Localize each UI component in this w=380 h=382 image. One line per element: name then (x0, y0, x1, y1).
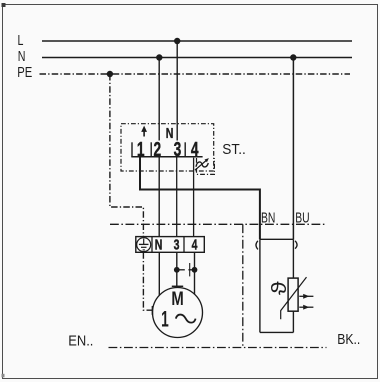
motor top terminal bar (172, 285, 183, 287)
controller ST.. box (121, 124, 214, 171)
connector contact left (256, 241, 258, 250)
variable AC symbol (196, 162, 208, 167)
thermal influence arrow 1 (299, 295, 313, 297)
motor M1 circle (153, 288, 203, 338)
wire PE to earth terminal (dash-dot) (110, 74, 143, 237)
svg-text:3: 3 (174, 236, 180, 253)
housing boundary top (dash-dot) (110, 223, 327, 225)
svg-text:L: L (18, 31, 24, 48)
svg-text:N: N (166, 124, 174, 141)
svg-text:1: 1 (137, 137, 145, 160)
wire block N to motor (158, 252, 160, 295)
svg-text:N: N (155, 236, 163, 253)
wire N to ST terminal 2 (158, 58, 160, 141)
earth terminal symbol (137, 238, 151, 252)
wire ST terminal 2 down (158, 157, 160, 237)
svg-text:1: 1 (161, 307, 169, 331)
wire BU segments (292, 239, 294, 278)
wire phase-control to motor terminal 4 (193, 158, 195, 237)
svg-text:PE: PE (17, 63, 32, 80)
sensor compartment divider (dash-dot) (242, 224, 244, 347)
thermistor body (288, 278, 298, 311)
wire block 3 to motor (176, 252, 178, 286)
svg-text:BK..: BK.. (337, 331, 360, 347)
svg-text:BU: BU (295, 210, 309, 226)
thermistor variability stroke (281, 277, 307, 319)
svg-text:N: N (18, 47, 26, 64)
housing boundary bottom (dash-dot) (109, 347, 327, 349)
connector contact right (295, 241, 297, 249)
sensor bottom wire (260, 331, 294, 333)
terminal strip of ST (131, 156, 202, 158)
node on N (left) (156, 54, 162, 60)
motor terminal block (136, 237, 205, 253)
wire ST terminal 1 to BN (thick) (140, 157, 260, 240)
svg-text:EN..: EN.. (68, 333, 93, 349)
line N (42, 57, 352, 59)
svg-text:3: 3 (174, 137, 182, 160)
line L (42, 40, 352, 42)
svg-text:ST..: ST.. (222, 141, 246, 157)
node on L (174, 38, 180, 44)
svg-text:4: 4 (191, 137, 199, 160)
svg-text:ϑ: ϑ (267, 281, 290, 295)
node on PE (107, 71, 113, 77)
phase-control output box (197, 158, 215, 174)
svg-text:M: M (171, 287, 183, 310)
wire L to ST terminal 3 (176, 41, 178, 141)
earth wire to motor frame (dash-dot) (143, 252, 152, 310)
thermal influence arrow 2 (299, 306, 313, 308)
wire ST terminal 3 down (176, 157, 178, 237)
motor tilde (176, 315, 196, 323)
svg-text:2: 2 (153, 137, 161, 160)
wire BN down (259, 239, 261, 332)
wire N to BU (292, 58, 294, 240)
svg-text:BN: BN (261, 210, 275, 226)
node on N (right) (290, 54, 296, 60)
tap node on wire 3 (174, 267, 180, 273)
arrow above terminal 1 (141, 126, 147, 132)
tap node on wire 4 (192, 267, 198, 273)
wire block 4 to motor (194, 252, 196, 294)
line PE (dash-dot) (40, 73, 351, 75)
sensor connector bar (260, 238, 294, 240)
svg-text:4: 4 (192, 236, 198, 253)
